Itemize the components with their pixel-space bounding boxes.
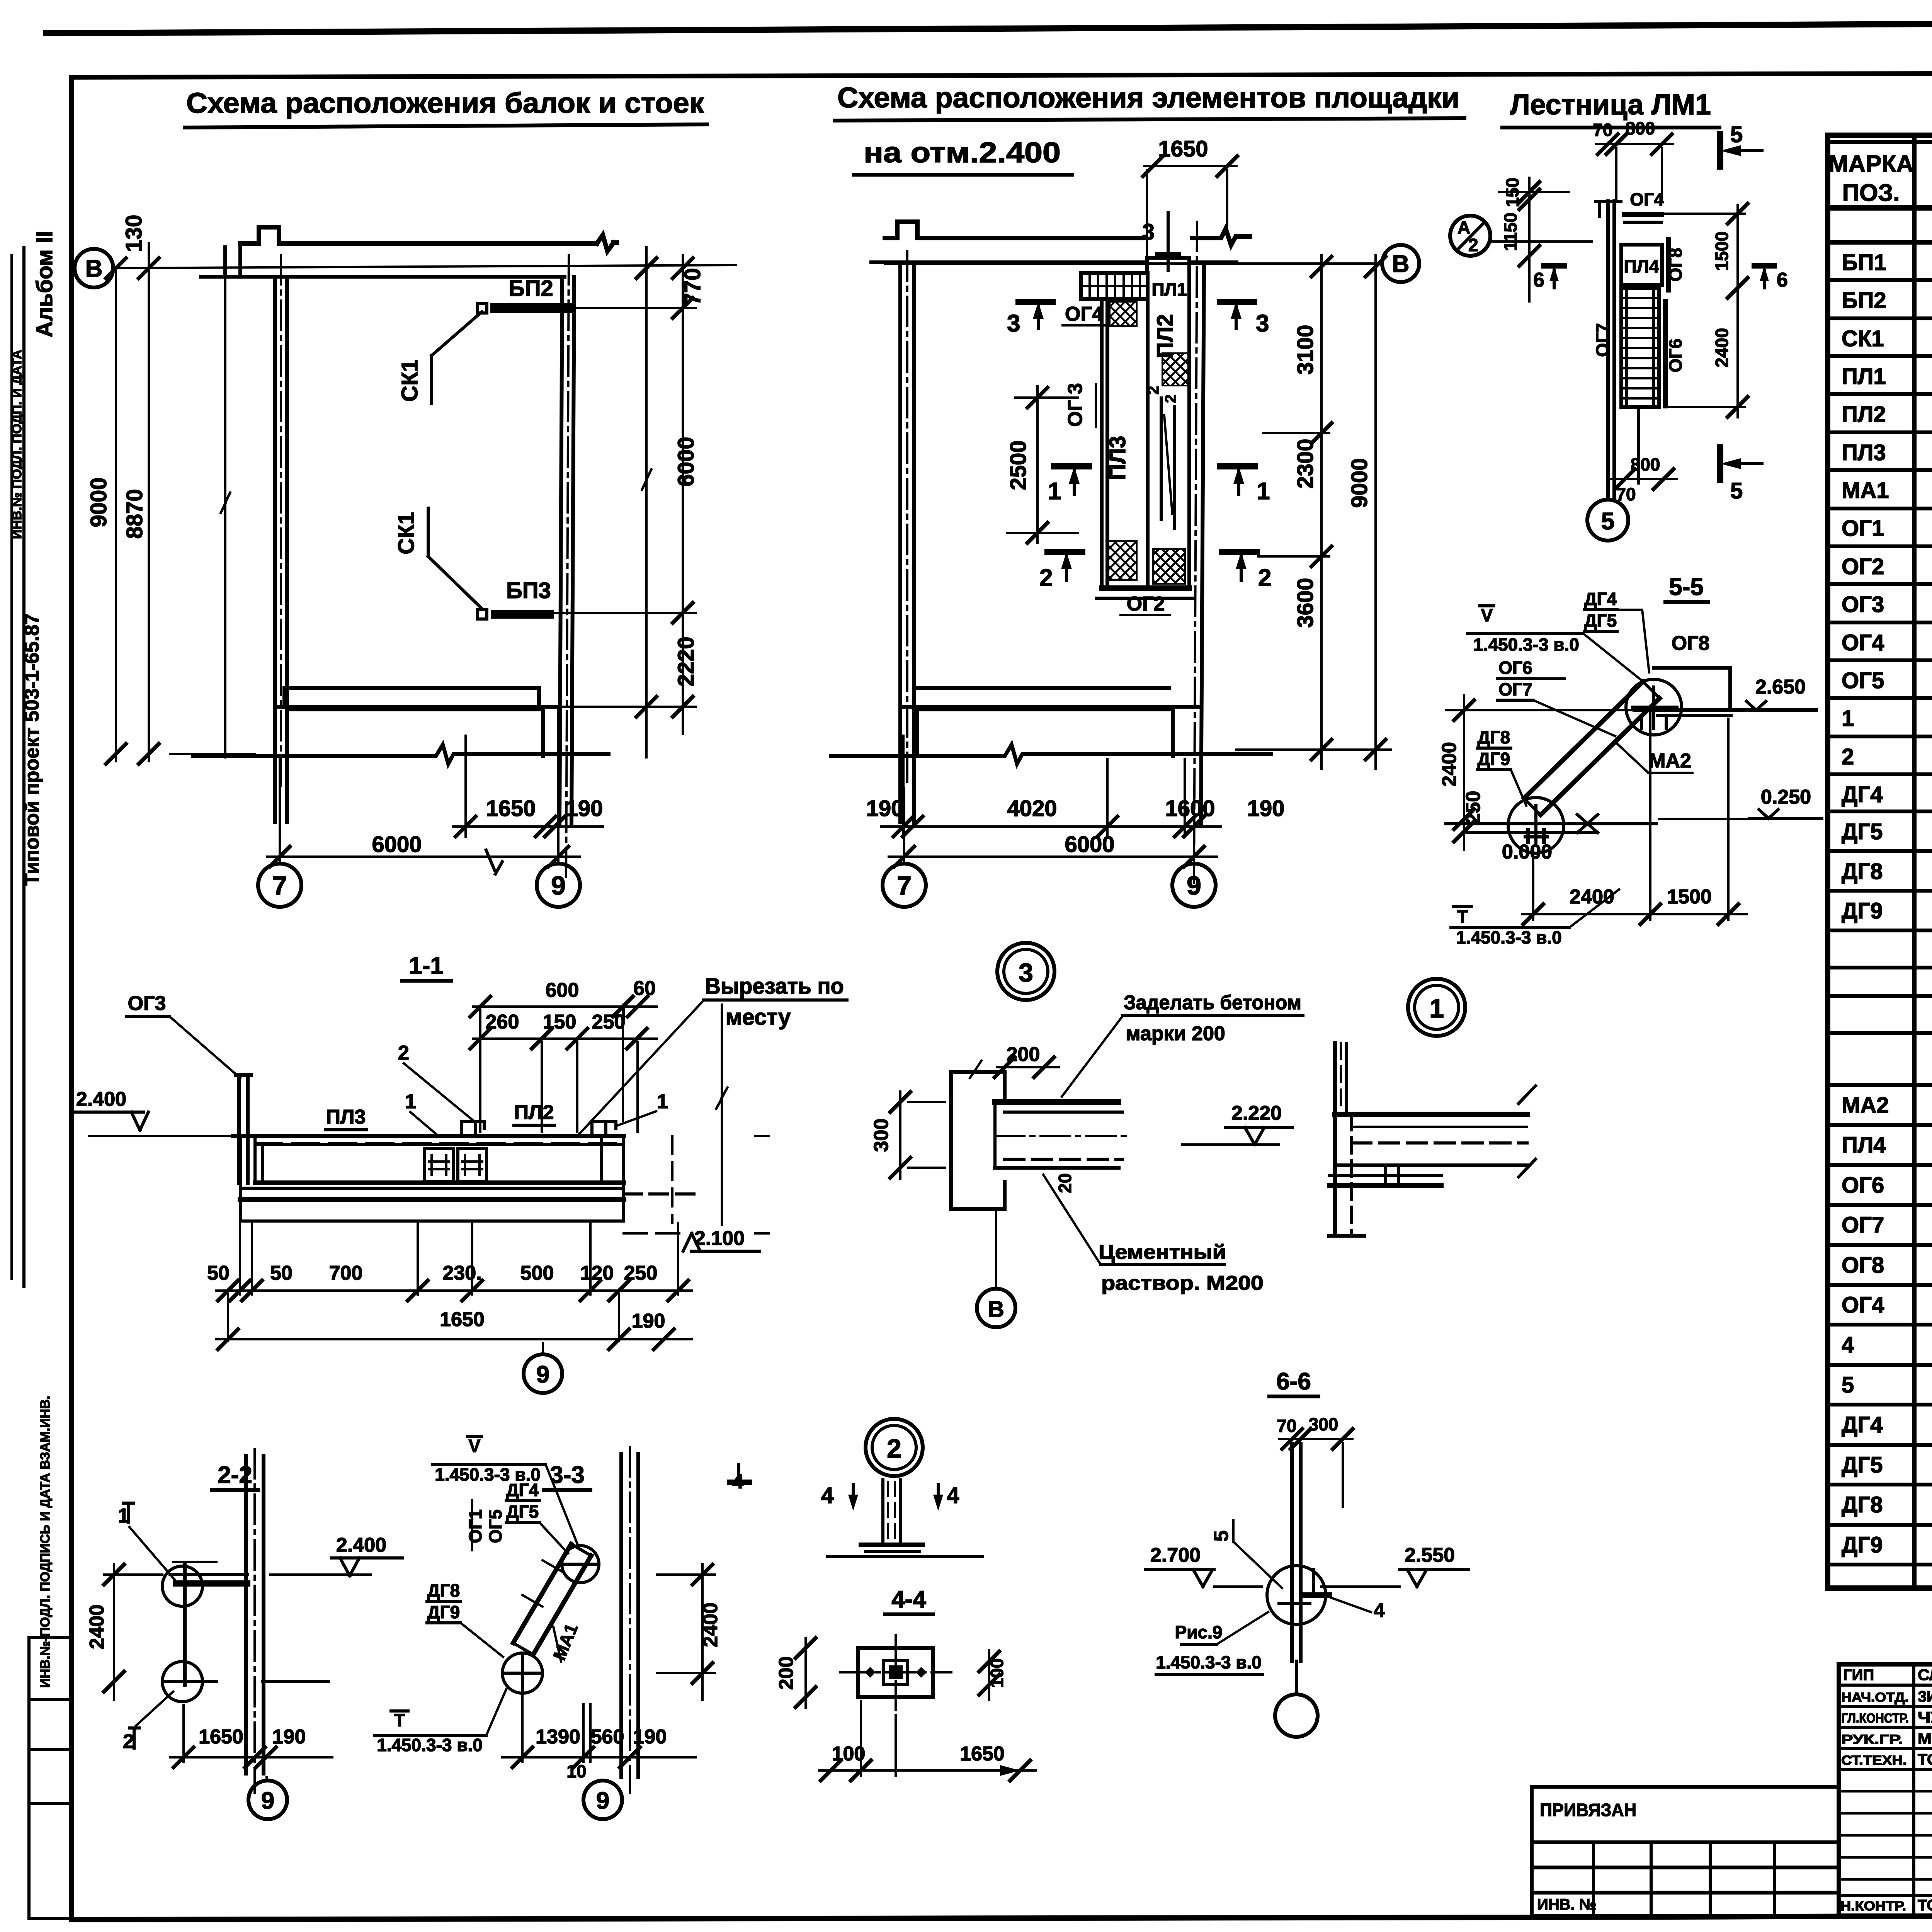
platform top box ПЛ1 [1147, 258, 1189, 302]
svg-text:СК1: СК1 [394, 512, 419, 554]
svg-text:3600: 3600 [1293, 578, 1318, 628]
svg-text:1-1: 1-1 [409, 952, 444, 979]
axis circles 7 and 9 [904, 788, 1194, 861]
svg-text:9: 9 [1187, 871, 1201, 900]
svg-text:СТ.ТЕХН.: СТ.ТЕХН. [1841, 1753, 1907, 1768]
svg-text:6000: 6000 [1065, 832, 1114, 857]
platform ПЛ1 grid [1081, 273, 1148, 299]
svg-text:2: 2 [1145, 386, 1162, 395]
svg-text:ГИП: ГИП [1843, 1667, 1874, 1684]
bottom dims 190/4020/1600/190 [881, 736, 1221, 837]
svg-text:1390: 1390 [536, 1726, 580, 1748]
svg-text:190: 190 [566, 796, 603, 821]
svg-text:1650: 1650 [199, 1726, 243, 1748]
svg-text:1150: 1150 [1500, 213, 1520, 251]
svg-text:1.450.3-3 в.0: 1.450.3-3 в.0 [1156, 1652, 1262, 1672]
svg-text:7: 7 [897, 871, 912, 900]
svg-text:5: 5 [1842, 1372, 1854, 1398]
svg-text:100: 100 [987, 1658, 1007, 1688]
svg-text:Рис.9: Рис.9 [1175, 1622, 1223, 1642]
svg-text:6-6: 6-6 [1276, 1368, 1311, 1395]
right wall verticals [1201, 262, 1204, 823]
svg-text:А: А [1458, 217, 1470, 237]
svg-text:V: V [1481, 605, 1493, 625]
DETAIL 2 circled [866, 1419, 923, 1476]
dim 1650 top [1145, 166, 1236, 255]
svg-text:ИНВ. №: ИНВ. № [1537, 1896, 1596, 1913]
left wall verticals [900, 262, 914, 822]
beam БП2 [495, 303, 568, 313]
svg-text:20: 20 [1055, 1173, 1075, 1193]
svg-text:6: 6 [1533, 269, 1544, 291]
svg-text:4: 4 [947, 1483, 959, 1508]
svg-text:2.400: 2.400 [336, 1534, 386, 1556]
svg-text:Т: Т [1457, 906, 1468, 927]
svg-text:1.450.3-3 в.0: 1.450.3-3 в.0 [1456, 927, 1562, 947]
svg-text:1: 1 [657, 1090, 668, 1113]
cut mark 1-1 left [1054, 463, 1089, 469]
svg-text:4-4: 4-4 [891, 1586, 926, 1613]
DETAIL 3 circled [997, 943, 1054, 1000]
svg-text:250: 250 [592, 1011, 626, 1033]
cut mark 2-2 left [1048, 549, 1082, 555]
wall top outer line with notch [885, 222, 1145, 238]
svg-text:ДГ5: ДГ5 [1842, 819, 1883, 844]
right dimension lines [641, 247, 652, 757]
svg-text:ОГ5: ОГ5 [485, 1509, 505, 1543]
svg-text:ПЛ4: ПЛ4 [1842, 1133, 1886, 1158]
svg-text:раствор. М200: раствор. М200 [1101, 1272, 1264, 1294]
upper platform outline [1654, 668, 1730, 710]
T mark [1454, 905, 1471, 908]
svg-text:190: 190 [272, 1726, 306, 1748]
page top scan line [46, 20, 1932, 33]
svg-text:2400: 2400 [699, 1602, 722, 1647]
svg-text:9: 9 [596, 1787, 609, 1814]
svg-text:ДГ4: ДГ4 [506, 1480, 539, 1500]
svg-text:2: 2 [1842, 744, 1854, 769]
svg-text:3: 3 [1142, 219, 1155, 245]
post СК1 (lower) leader and label [428, 508, 481, 607]
svg-text:БП2: БП2 [509, 276, 553, 301]
level mark V [468, 1435, 481, 1438]
svg-text:800: 800 [1631, 454, 1660, 474]
clips item 1 [462, 1121, 484, 1136]
dim 100 right [988, 1650, 990, 1700]
item 2 rails inside ПЛ2 [1161, 398, 1175, 529]
svg-text:2.650: 2.650 [1755, 676, 1806, 698]
node bottom [162, 1662, 202, 1702]
beam and node top [176, 1580, 247, 1587]
cut mark 3-3 left [1019, 299, 1053, 305]
svg-text:ПЛ3: ПЛ3 [326, 1106, 366, 1128]
svg-text:1650: 1650 [1158, 136, 1208, 162]
svg-text:ДГ9: ДГ9 [1842, 1532, 1883, 1558]
pedestal plan [858, 1648, 933, 1697]
bolted connection squares [425, 1148, 453, 1182]
svg-text:70: 70 [1593, 120, 1612, 140]
svg-text:3: 3 [1256, 310, 1269, 337]
svg-text:Вырезать по: Вырезать по [705, 974, 844, 999]
svg-text:ОГ3: ОГ3 [1842, 592, 1884, 617]
svg-text:ОГ4: ОГ4 [1065, 303, 1103, 325]
svg-text:ОГ5: ОГ5 [1842, 668, 1884, 693]
stair treads [1621, 288, 1659, 407]
svg-text:МАРКА: МАРКА [1828, 151, 1913, 177]
bottom dims 2400 1500 [1522, 713, 1747, 920]
wall top outer line with notch [240, 227, 597, 243]
section mark 6 right [1754, 263, 1774, 269]
svg-text:марки 200: марки 200 [1126, 1022, 1225, 1045]
svg-text:В: В [85, 255, 103, 282]
svg-text:Альбом II: Альбом II [32, 231, 57, 337]
svg-text:190: 190 [632, 1310, 665, 1332]
svg-text:2: 2 [1039, 565, 1053, 591]
svg-text:СЛАНСКИЙ: СЛАНСКИЙ [1918, 1666, 1932, 1684]
svg-text:2: 2 [1468, 235, 1478, 255]
svg-text:ДГ8: ДГ8 [1842, 859, 1883, 884]
svg-text:1: 1 [1429, 994, 1444, 1023]
svg-text:МА2: МА2 [1649, 750, 1691, 772]
cut mark 3 (top) [1167, 213, 1170, 270]
svg-text:5-5: 5-5 [1669, 574, 1704, 600]
axis B circle right [1382, 245, 1419, 282]
svg-text:СК1: СК1 [1842, 326, 1884, 351]
svg-text:1500: 1500 [1712, 231, 1732, 271]
svg-text:500: 500 [520, 1262, 554, 1284]
svg-text:V: V [469, 1436, 481, 1456]
svg-text:ОГ7: ОГ7 [1592, 323, 1612, 357]
svg-text:ДГ9: ДГ9 [427, 1602, 460, 1622]
svg-text:ОГ1: ОГ1 [465, 1509, 485, 1543]
cut mark 1-1 right [1220, 463, 1255, 469]
svg-text:ПЛ3: ПЛ3 [1105, 436, 1130, 480]
svg-text:5: 5 [1601, 508, 1614, 535]
svg-text:8870: 8870 [122, 489, 147, 539]
svg-text:70: 70 [1277, 1416, 1296, 1436]
svg-text:ДГ8: ДГ8 [427, 1580, 460, 1600]
svg-text:ПРИВЯЗАН: ПРИВЯЗАН [1540, 1800, 1636, 1820]
svg-text:5: 5 [1210, 1531, 1233, 1542]
svg-text:ОГ3: ОГ3 [128, 992, 166, 1015]
axis circle 5 [1587, 500, 1628, 541]
svg-text:1500: 1500 [1667, 886, 1712, 908]
detail 1 post [1333, 1043, 1337, 1236]
svg-text:ПЛ2: ПЛ2 [1842, 402, 1886, 427]
right dim lines 3100/2300/3600 [1320, 255, 1323, 769]
parts table column lines [1912, 135, 1917, 1588]
beam БП3 [495, 610, 550, 619]
svg-text:3100: 3100 [1293, 325, 1318, 374]
svg-text:1650: 1650 [486, 796, 536, 821]
dim 200 left [804, 1638, 807, 1708]
T mark [391, 1709, 408, 1713]
svg-text:3: 3 [1007, 310, 1020, 337]
svg-text:месту: месту [726, 1005, 791, 1030]
svg-text:2.220: 2.220 [1231, 1102, 1282, 1124]
svg-text:9000: 9000 [1347, 458, 1372, 508]
svg-text:2500: 2500 [1006, 440, 1031, 490]
svg-text:6000: 6000 [673, 437, 699, 486]
left dims 150 / 1150 [1528, 178, 1531, 301]
svg-text:ДГ5: ДГ5 [1842, 1452, 1883, 1478]
svg-text:В: В [988, 1297, 1004, 1322]
svg-text:ПЛ2: ПЛ2 [1153, 314, 1178, 359]
svg-text:ОГ7: ОГ7 [1842, 1213, 1884, 1238]
svg-text:300: 300 [1309, 1414, 1338, 1434]
dim 2500 left [1007, 386, 1078, 543]
svg-text:800: 800 [1626, 118, 1655, 138]
bottom wall plan2 [914, 686, 1169, 690]
svg-text:ДГ5: ДГ5 [1584, 611, 1617, 631]
svg-text:2.100: 2.100 [694, 1227, 745, 1250]
svg-text:Схема расположения элементов п: Схема расположения элементов площадки [837, 82, 1459, 114]
axis B line [885, 262, 1382, 265]
svg-text:6000: 6000 [372, 832, 422, 857]
svg-text:6: 6 [1777, 269, 1788, 291]
ОГ8 rail right of ПЛ4 [1666, 240, 1671, 290]
svg-text:БП3: БП3 [506, 578, 551, 603]
svg-text:Н.КОНТР.: Н.КОНТР. [1840, 1899, 1906, 1913]
svg-text:2: 2 [123, 1730, 134, 1753]
detail 3 column [951, 1072, 1005, 1209]
column pair [246, 1456, 264, 1774]
svg-text:ТОШИЦКАЯ: ТОШИЦКАЯ [1918, 1751, 1932, 1768]
svg-text:МОРАЛЕВ: МОРАЛЕВ [1918, 1730, 1932, 1747]
post ОГ3 [236, 1075, 251, 1183]
svg-text:560: 560 [591, 1726, 624, 1748]
svg-text:0.250: 0.250 [1761, 786, 1811, 808]
svg-text:ПЛ3: ПЛ3 [1842, 440, 1886, 465]
svg-text:РУК.ГР.: РУК.ГР. [1841, 1732, 1903, 1747]
svg-text:1650: 1650 [440, 1308, 485, 1331]
lower slab edge with break [287, 709, 543, 756]
right break line [716, 1005, 728, 1225]
svg-text:60: 60 [633, 977, 656, 1000]
wall top left end verticals [225, 243, 240, 277]
svg-text:ЗИЛЬБЕРТОВ: ЗИЛЬБЕРТОВ [1918, 1688, 1932, 1705]
drawing frame left [69, 77, 74, 1918]
svg-text:1: 1 [1257, 478, 1270, 505]
svg-text:4: 4 [1842, 1332, 1854, 1357]
svg-text:Типовой проект 503-1-65.87: Типовой проект 503-1-65.87 [21, 614, 43, 886]
platform left rail (ОГ3) double line [1102, 301, 1107, 588]
svg-text:600: 600 [546, 979, 579, 1002]
drawing frame top [71, 72, 1932, 77]
svg-text:190: 190 [866, 796, 904, 821]
svg-text:9000: 9000 [86, 477, 111, 527]
svg-text:4020: 4020 [1007, 796, 1057, 821]
svg-text:0.000: 0.000 [1502, 841, 1552, 863]
platform ПЛ4 box [1621, 245, 1662, 285]
svg-text:2300: 2300 [1293, 439, 1318, 488]
left margin inner line [22, 247, 26, 1287]
column [621, 1454, 638, 1777]
svg-text:Лестница ЛМ1: Лестница ЛМ1 [1510, 88, 1711, 121]
svg-text:5: 5 [1730, 122, 1743, 147]
svg-text:ОГ6: ОГ6 [1498, 658, 1532, 678]
drawing frame bottom [71, 1910, 1932, 1920]
section mark 5 bottom [1717, 447, 1723, 480]
svg-text:НАЧ.ОТД.: НАЧ.ОТД. [1841, 1690, 1909, 1705]
inner wall top line [871, 260, 1236, 264]
svg-text:ОГ4: ОГ4 [1842, 1293, 1884, 1318]
svg-text:на отм.2.400: на отм.2.400 [864, 136, 1061, 168]
svg-text:СК1: СК1 [397, 359, 422, 402]
svg-text:50: 50 [270, 1262, 293, 1284]
axis B of detail 3 [995, 1209, 997, 1287]
under-deck beams box [255, 1143, 601, 1146]
parts table row lines [1828, 205, 1932, 211]
svg-text:2: 2 [887, 1434, 901, 1463]
stair band [513, 1544, 571, 1643]
svg-text:ПЛ2: ПЛ2 [514, 1101, 554, 1124]
section mark 6 left [1544, 263, 1564, 269]
svg-text:2220: 2220 [673, 636, 699, 686]
lower beam [240, 1187, 624, 1190]
svg-text:ОГ7: ОГ7 [1498, 679, 1532, 699]
bottom dimension 1650 / 190 [453, 736, 603, 837]
stair lower part verticals [1637, 407, 1640, 483]
svg-text:ОГ6: ОГ6 [1665, 338, 1685, 372]
right wall [560, 277, 574, 823]
right dims 1500 / 2400 [1736, 205, 1739, 417]
svg-text:ДГ8: ДГ8 [1478, 727, 1510, 747]
svg-text:4: 4 [821, 1483, 833, 1508]
bottom wall [284, 686, 539, 690]
left wall [275, 277, 287, 822]
svg-text:ИНВ.№-ПОДЛ. ПОДПИСЬ И ДАТА ВЗА: ИНВ.№-ПОДЛ. ПОДПИСЬ И ДАТА ВЗАМ.ИНВ. [38, 1396, 53, 1688]
svg-text:ОГ8: ОГ8 [1665, 248, 1685, 281]
svg-text:ГЛ.КОНСТР.: ГЛ.КОНСТР. [1841, 1711, 1909, 1726]
platform right edge [1187, 302, 1191, 588]
deck top line [233, 1134, 624, 1138]
svg-text:50: 50 [207, 1262, 230, 1284]
axis circle 9 [542, 1343, 544, 1353]
svg-text:3-3: 3-3 [550, 1462, 585, 1488]
svg-text:2: 2 [1258, 565, 1271, 591]
svg-text:1650: 1650 [960, 1743, 1005, 1765]
svg-text:ОГ1: ОГ1 [1842, 516, 1884, 541]
left dims 2400 250 [1463, 696, 1465, 850]
svg-text:ОГ4: ОГ4 [1630, 189, 1664, 209]
axis B circle [75, 249, 113, 287]
svg-text:ПОЗ.: ПОЗ. [1842, 180, 1900, 206]
svg-text:МА2: МА2 [1842, 1093, 1889, 1118]
svg-text:2.550: 2.550 [1405, 1544, 1455, 1566]
svg-text:ДГ9: ДГ9 [1842, 898, 1883, 923]
svg-text:200: 200 [775, 1656, 798, 1690]
DETAIL 1 circled [1408, 979, 1465, 1036]
axis B line [113, 265, 736, 268]
svg-text:190: 190 [633, 1726, 667, 1748]
svg-text:ПЛ1: ПЛ1 [1842, 364, 1886, 389]
svg-text:ТОЛМАЧЕВА: ТОЛМАЧЕВА [1918, 1897, 1932, 1914]
svg-text:1600: 1600 [1165, 796, 1215, 821]
svg-text:300: 300 [870, 1119, 893, 1152]
svg-text:ДГ9: ДГ9 [1478, 749, 1510, 769]
svg-text:ОГ4: ОГ4 [1842, 630, 1884, 655]
svg-text:ИНВ.№ ПОДЛ. ПОДП. И ДАТА: ИНВ.№ ПОДЛ. ПОДП. И ДАТА [10, 350, 24, 539]
detail 3 beam [995, 1099, 1119, 1105]
svg-text:7: 7 [272, 871, 287, 900]
svg-text:В: В [1392, 251, 1410, 277]
parts table outer border [1828, 135, 1932, 1588]
svg-text:2.700: 2.700 [1150, 1544, 1201, 1566]
svg-text:1: 1 [1048, 478, 1061, 505]
svg-text:ДГ4: ДГ4 [1842, 782, 1883, 807]
svg-text:ОГ8: ОГ8 [1842, 1253, 1884, 1278]
lower axis circle [1295, 1661, 1298, 1694]
svg-text:2: 2 [1162, 395, 1179, 403]
svg-text:700: 700 [329, 1262, 363, 1284]
svg-text:130: 130 [121, 215, 146, 252]
svg-text:230.: 230. [442, 1262, 481, 1284]
ОГ6 rail [1663, 301, 1668, 406]
svg-text:ДГ5: ДГ5 [506, 1502, 539, 1522]
svg-text:Заделать бетоном: Заделать бетоном [1124, 992, 1301, 1014]
svg-text:10: 10 [566, 1761, 586, 1781]
svg-text:1.450.3-3 в.0: 1.450.3-3 в.0 [377, 1735, 483, 1755]
right end box [601, 1145, 624, 1183]
svg-text:МА1: МА1 [1842, 478, 1889, 503]
svg-text:2400: 2400 [1712, 328, 1732, 367]
svg-text:1.450.3-3 в.0: 1.450.3-3 в.0 [1473, 634, 1579, 655]
svg-text:1: 1 [1842, 706, 1854, 731]
title block signature table [1839, 1664, 1932, 1916]
svg-text:ОГ8: ОГ8 [1672, 632, 1710, 655]
node circle [1267, 1566, 1326, 1624]
svg-text:ОГ2: ОГ2 [1842, 554, 1884, 579]
svg-text:190: 190 [1247, 796, 1285, 821]
svg-text:ОГ 3: ОГ 3 [1064, 383, 1087, 427]
level mark V 1.450.3-3 в.0 [1480, 604, 1494, 607]
svg-text:Схема расположения балок и сто: Схема расположения балок и стоек [186, 87, 704, 119]
svg-text:250: 250 [1462, 791, 1485, 825]
svg-text:БП1: БП1 [1842, 250, 1886, 275]
svg-text:ПЛ4: ПЛ4 [1624, 256, 1659, 276]
svg-text:Цементный: Цементный [1099, 1241, 1226, 1264]
cut mark 2-2 right [1222, 549, 1257, 555]
hatch squares [1110, 302, 1137, 326]
dim 300 [900, 1092, 945, 1179]
post СК1 (upper) leader and label [432, 312, 482, 404]
top dims 70 800 [1596, 143, 1673, 145]
dim 2400 right [657, 1564, 715, 1700]
svg-text:2.400: 2.400 [76, 1088, 126, 1111]
svg-text:770: 770 [680, 268, 705, 306]
bottom node level line [1446, 822, 1656, 825]
axis circle 9 [265, 1777, 268, 1781]
node circles [1626, 679, 1682, 735]
svg-text:ДГ8: ДГ8 [1842, 1492, 1883, 1517]
axis A/2 circle [1450, 216, 1490, 256]
section mark 5 top [1717, 134, 1723, 167]
stair flight band [1524, 682, 1643, 798]
axis circles 7 and 9 [280, 709, 558, 861]
thin rail between nodes [183, 1565, 187, 1685]
inner wall top line [201, 275, 565, 279]
node circles [562, 1546, 599, 1583]
svg-text:Т: Т [394, 1710, 405, 1730]
post [1292, 1444, 1301, 1661]
svg-text:ОГ2: ОГ2 [1127, 593, 1165, 615]
svg-text:ДГ4: ДГ4 [1842, 1412, 1883, 1437]
svg-text:2400: 2400 [86, 1604, 108, 1649]
svg-text:БП2: БП2 [1842, 288, 1886, 313]
bottom dim 6000 [889, 855, 1217, 858]
stair left stringer [1608, 201, 1614, 498]
